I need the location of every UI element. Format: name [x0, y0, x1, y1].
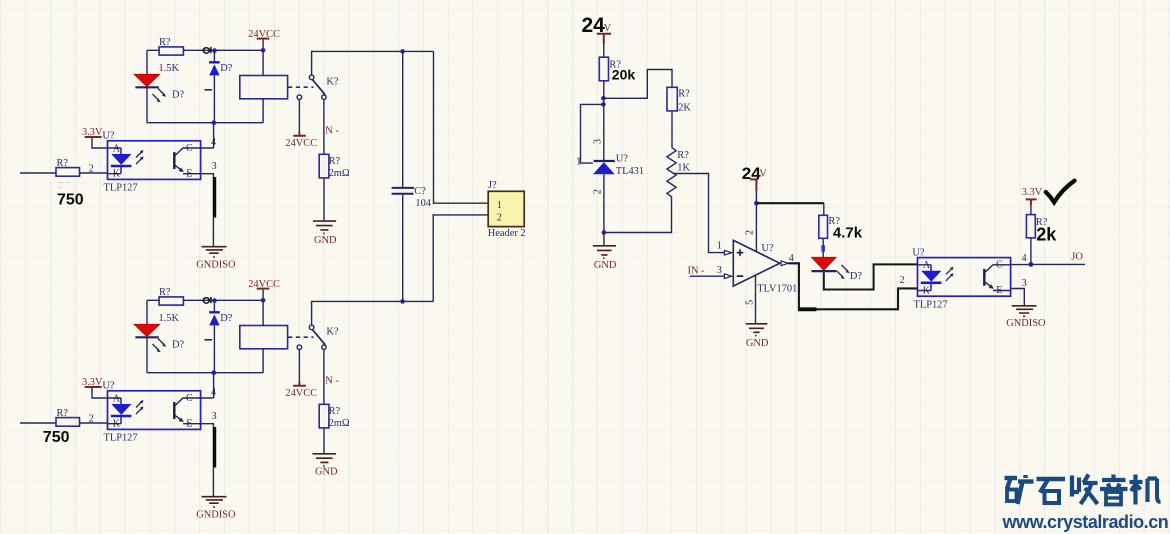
- svg-text:3: 3: [1022, 278, 1027, 289]
- svg-text:3: 3: [212, 161, 217, 172]
- ground GND (A): [313, 221, 337, 246]
- watermark logo shi: [1037, 479, 1066, 503]
- wire 2K to 1K: [671, 111, 673, 147]
- watermark logo kuang: [1005, 475, 1034, 504]
- ink annotation thick stroke over pin3 wire (A): [213, 177, 216, 218]
- svg-text:R?: R?: [677, 150, 689, 161]
- resistor R? 2m ohm shunt (A): [319, 154, 350, 179]
- resistor R? 1.5K (A): [159, 37, 184, 74]
- comparator U? TLV1701: [724, 240, 797, 294]
- wire shunt to GND (B): [323, 428, 325, 453]
- wire R? to opto pin 2 (B): [80, 414, 108, 425]
- switch K? (B): [309, 325, 339, 349]
- svg-text:JO: JO: [1071, 252, 1083, 263]
- svg-text:5: 5: [745, 300, 756, 305]
- LED D? red output: [812, 257, 863, 282]
- ground GND (B): [313, 454, 339, 478]
- svg-text:D?: D?: [220, 63, 233, 74]
- resistor R? 750 input (B): [56, 408, 80, 437]
- wire cap branch upper: [402, 51, 404, 187]
- svg-text:V: V: [604, 23, 612, 34]
- svg-text:U?: U?: [616, 154, 629, 165]
- svg-text:www.crystalradio.cn: www.crystalradio.cn: [1002, 512, 1169, 532]
- wire top rail (B): [147, 299, 263, 301]
- diode D? blue flyback (A): [205, 51, 233, 123]
- wire bottom rail (A): [147, 120, 263, 125]
- power port 3.3V output side: [1022, 187, 1043, 215]
- wire to header pin 2: [433, 215, 488, 302]
- svg-text:24VCC: 24VCC: [285, 138, 317, 149]
- wire opto pin 3 to GNDISO output: [1011, 278, 1027, 305]
- junction TL431 anode / GND rail: [602, 230, 607, 235]
- diode D? blue flyback (B): [205, 301, 233, 373]
- svg-text:GNDISO: GNDISO: [1006, 318, 1046, 329]
- LED D? red (A): [134, 50, 185, 122]
- LED D? red (B): [134, 300, 185, 372]
- power port 24VCC top (B): [248, 279, 280, 302]
- svg-text:V: V: [759, 169, 767, 180]
- svg-text:1K: 1K: [677, 162, 690, 173]
- net label IN- and wire to shunt (A): [324, 99, 340, 154]
- watermark logo ji: [1130, 475, 1161, 505]
- svg-text:1: 1: [717, 241, 722, 252]
- wire opto pin 3 to GNDISO (A): [201, 161, 217, 246]
- ground GND comparator: [746, 324, 769, 349]
- wire input left (B): [20, 422, 56, 424]
- connector J? Header 2: [488, 180, 526, 239]
- svg-text:C?: C?: [414, 186, 426, 197]
- svg-text:GND: GND: [594, 260, 617, 271]
- svg-text:2: 2: [900, 275, 905, 286]
- svg-text:D?: D?: [172, 90, 185, 101]
- svg-text:GND: GND: [314, 235, 337, 246]
- wire ref loop to TL431: [581, 104, 603, 163]
- wire 1K bottom to GND rail: [604, 198, 672, 232]
- svg-text:GND: GND: [315, 467, 338, 478]
- power port 24VCC switch terminal (B): [285, 345, 317, 399]
- svg-text:3.3V: 3.3V: [1022, 187, 1043, 198]
- wire 20k to junctions: [603, 81, 605, 105]
- resistor R? 2k pull-up: [1026, 215, 1057, 245]
- svg-text:R?: R?: [329, 156, 341, 167]
- svg-text:U?: U?: [762, 243, 775, 254]
- power port 24V comparator supply: [742, 164, 768, 203]
- junction ref loop: [601, 102, 606, 107]
- ground GNDISO (B): [196, 497, 236, 521]
- resistor R? 750 input (A): [56, 158, 80, 187]
- wire switch top to cap/header (B): [312, 301, 434, 325]
- junction output node: [1029, 262, 1034, 267]
- svg-text:N -: N -: [325, 126, 339, 137]
- power port 24VCC switch terminal (A): [285, 95, 317, 149]
- junction divider top: [601, 96, 606, 101]
- wire comparator pin 2 supply: [755, 203, 757, 251]
- svg-text:IN -: IN -: [688, 266, 706, 277]
- junction supply branch: [754, 201, 759, 206]
- net label IN- and wire to shunt (B): [324, 349, 340, 404]
- wire comparator out to opto cathode (annotated black): [788, 263, 917, 309]
- wire 1K tap to comparator pin 1: [674, 174, 724, 253]
- svg-text:D?: D?: [850, 271, 863, 282]
- regulator U? TL431: [593, 104, 644, 232]
- svg-text:R?: R?: [159, 37, 171, 48]
- wire cap branch lower: [402, 195, 404, 302]
- svg-text:Header 2: Header 2: [488, 228, 526, 239]
- wire LED to opto anode (annotated black): [824, 264, 918, 289]
- net label IN- comparator input: [688, 266, 725, 277]
- junction cap branch (B): [400, 299, 405, 304]
- wire junction to 2k: [1030, 238, 1032, 265]
- watermark logo shou: [1072, 475, 1098, 505]
- junction diode/top rail (A): [212, 48, 217, 53]
- wire R? to opto pin 2 (A): [80, 164, 108, 175]
- wire input left (A): [20, 172, 56, 174]
- junction diode/top rail (B): [212, 298, 217, 303]
- svg-text:TL431: TL431: [616, 166, 644, 177]
- resistor R? 1.5K (B): [159, 287, 184, 324]
- ink scribble annotation (A): [203, 47, 211, 53]
- wire bottom rail (B): [147, 370, 263, 375]
- svg-text:K?: K?: [326, 76, 339, 87]
- resistor R? 2K: [667, 87, 691, 113]
- relay coil K? (A): [240, 50, 288, 122]
- wire comparator pin 5 to GND: [755, 276, 757, 324]
- svg-text:J?: J?: [488, 180, 497, 191]
- wire opto pin 3 to GNDISO (B): [201, 411, 217, 496]
- capacitor C? 104: [392, 186, 432, 209]
- svg-text:2k: 2k: [1036, 225, 1057, 245]
- junction cap branch (A): [400, 49, 405, 54]
- svg-text:4.7k: 4.7k: [833, 224, 863, 241]
- svg-text:3: 3: [717, 265, 722, 276]
- svg-text:104: 104: [415, 198, 431, 209]
- svg-text:2K: 2K: [678, 103, 691, 114]
- watermark logo yin: [1100, 475, 1128, 505]
- resistor R? 2m ohm shunt (B): [319, 404, 350, 429]
- power port 3.3V (A): [82, 127, 108, 148]
- ink thick overlay on output wire: [798, 307, 817, 311]
- ink blue mark on wire: [822, 245, 825, 252]
- svg-text:2: 2: [593, 189, 604, 194]
- resistor R? 4.7k: [819, 215, 863, 241]
- svg-text:4: 4: [211, 137, 216, 148]
- power port 24VCC top (A): [248, 29, 280, 52]
- wire divider to 2K: [604, 70, 672, 99]
- optocoupler U? TLP127 (A): [102, 131, 200, 194]
- wire switch top to cap/header (A): [312, 51, 434, 75]
- svg-text:GND: GND: [746, 338, 769, 349]
- power port 3.3V (B): [82, 377, 108, 398]
- ink checkmark annotation: [1046, 181, 1075, 203]
- svg-text:2: 2: [497, 212, 502, 223]
- svg-text:2: 2: [89, 164, 94, 175]
- power port 24V main (annotated 24): [582, 14, 612, 57]
- wire opto pin 4 to junction: [1011, 253, 1031, 264]
- net label JO output wire: [1031, 252, 1085, 265]
- wire to header pin 1: [434, 51, 489, 203]
- svg-text:20k: 20k: [612, 66, 636, 82]
- svg-text:2: 2: [745, 230, 756, 235]
- ink annotation thick stroke over pin3 wire (B): [214, 427, 216, 468]
- resistor R? 20k: [599, 57, 635, 82]
- svg-text:1.5K: 1.5K: [159, 63, 180, 74]
- wire supply to 4.7k (annotated): [757, 203, 824, 215]
- svg-text:2mΩ: 2mΩ: [329, 168, 350, 179]
- switch K? (A): [309, 75, 339, 99]
- svg-text:750: 750: [57, 192, 84, 209]
- svg-text:750: 750: [43, 429, 70, 446]
- svg-text:1: 1: [497, 200, 502, 211]
- ground GNDISO output: [1006, 306, 1046, 329]
- dashed linkage relay to switch (B): [288, 336, 314, 338]
- ink scribble annotation (B): [203, 297, 211, 303]
- wire shunt to GND (A): [323, 178, 325, 221]
- svg-text:R?: R?: [57, 158, 69, 169]
- ground GND below TL431: [593, 233, 617, 271]
- optocoupler U? TLP127 output: [912, 247, 1010, 310]
- svg-text:4: 4: [1022, 253, 1027, 264]
- svg-text:GNDISO: GNDISO: [196, 259, 236, 270]
- dashed linkage relay to switch (A): [288, 86, 314, 88]
- wire opto pin 4 to diode rail (B): [201, 373, 216, 399]
- wire opto pin 4 to diode rail (A): [201, 123, 216, 149]
- wire 4.7k to LED: [822, 238, 824, 257]
- relay coil K? (B): [240, 300, 288, 372]
- ground GNDISO (A): [196, 247, 236, 271]
- svg-text:1: 1: [576, 156, 581, 167]
- svg-text:TLV1701: TLV1701: [757, 283, 797, 294]
- resistor R? 1K: [667, 147, 691, 198]
- wire top rail (A): [147, 49, 263, 51]
- svg-text:3: 3: [593, 139, 604, 144]
- optocoupler U? TLP127 (B): [102, 381, 200, 444]
- svg-text:R?: R?: [678, 88, 690, 99]
